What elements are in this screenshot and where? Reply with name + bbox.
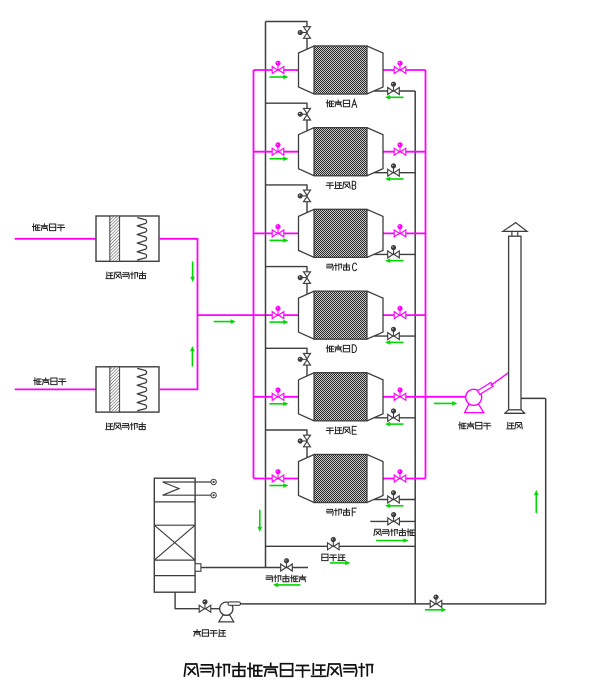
valve black top of adsorber C [298, 190, 311, 202]
wire outlet branch of adsorber A [383, 69, 426, 71]
wire magenta supply manifold (left) [253, 70, 255, 479]
flow arrow into adsorber F [270, 483, 289, 488]
valve magenta inlet of adsorber F [272, 469, 284, 482]
catalytic combustion unit [154, 478, 211, 592]
valve black top of adsorber D [298, 272, 311, 284]
wire black desorption manifold (left) [265, 22, 267, 568]
valve bottom return [430, 595, 442, 608]
flow arrow down on left desorption manifold [258, 510, 263, 532]
wire feed riser joining both filters [197, 239, 199, 390]
wire bottom desorption branch of adsorber F [374, 499, 415, 501]
wire catalytic unit bottom outlet [175, 592, 220, 609]
label adsorption box F [326, 508, 356, 516]
valve black top of adsorber A [298, 27, 311, 39]
label adsorption box D [326, 345, 356, 353]
wire inlet branch to adsorber C [254, 232, 299, 234]
wire top desorption branch of adsorber B [266, 103, 308, 131]
adsorption box D [299, 291, 384, 339]
wire inlet 2 to dry filter 2 [15, 388, 96, 390]
wire catalytic cooling line [201, 567, 308, 569]
wire dry filter 2 outlet [159, 388, 198, 390]
flow arrow to main exhaust fan [434, 401, 458, 406]
valve catalytic cooling (cuihua bulengfa) [281, 558, 293, 571]
wire inlet 1 to dry filter 1 [15, 238, 96, 240]
dry filter 2 [96, 367, 159, 412]
flow arrow desorption into adsorber D [385, 340, 404, 345]
heater terminal 1 [211, 479, 216, 484]
wire outlet branch of adsorber B [383, 151, 426, 153]
flow arrow into adsorber C [270, 238, 289, 243]
valve black bottom of adsorber B [388, 163, 400, 176]
adsorption box A [299, 46, 384, 94]
valve black bottom of adsorber D [388, 327, 400, 340]
label desorption fan [194, 630, 226, 637]
label chimney [507, 422, 522, 429]
flow arrow switching line [330, 561, 351, 566]
flow arrow up from filter 2 [190, 346, 195, 367]
flow arrow into adsorber A [270, 75, 289, 80]
valve magenta outlet of adsorber F [394, 469, 406, 482]
valve magenta inlet of adsorber C [272, 224, 284, 237]
wire inlet branch to adsorber E [254, 396, 299, 398]
label switching valve [322, 554, 345, 561]
wire bottom desorption branch of adsorber A [374, 90, 415, 92]
dry filter 1 [96, 216, 159, 261]
valve black bottom of adsorber C [388, 245, 400, 258]
valve magenta inlet of adsorber A [272, 61, 284, 74]
wire bottom desorption branch of adsorber B [374, 172, 415, 174]
valve black bottom of adsorber A [388, 82, 400, 95]
wire inlet branch to adsorber F [254, 478, 299, 480]
wire dry filter 1 outlet [159, 238, 198, 240]
wire inlet branch to adsorber A [254, 69, 299, 71]
adsorption box B [299, 128, 384, 176]
wire outlet branch of adsorber C [383, 232, 426, 234]
wire black desorption manifold (right) [414, 91, 416, 604]
valve black top of adsorber F [298, 435, 311, 447]
valve magenta outlet of adsorber A [394, 61, 406, 74]
label main exhaust fan [459, 422, 491, 429]
wire magenta clean-air manifold (right) [425, 70, 427, 479]
wire top desorption branch of adsorber F [266, 430, 308, 458]
flow arrow desorption into adsorber F [385, 504, 404, 509]
valve black bottom of adsorber E [388, 408, 400, 421]
main exhaust fan [465, 373, 509, 413]
node waste-gas inlet 2 label [34, 378, 66, 385]
valve desorption cooling (tuofu bulengfa) [388, 512, 400, 525]
flow arrow desorption cooling [376, 538, 409, 543]
desorption fan [219, 602, 241, 622]
flow arrow desorption into adsorber E [385, 422, 404, 427]
wire bottom return line [241, 603, 546, 605]
valve magenta outlet of adsorber D [394, 306, 406, 319]
label adsorption box B [326, 181, 355, 189]
label adsorption box A [326, 100, 356, 108]
heater terminal 2 [211, 493, 216, 498]
valve black top of adsorber E [298, 354, 311, 366]
valve magenta outlet of adsorber B [394, 142, 406, 155]
wire top desorption branch of adsorber D [266, 267, 308, 295]
adsorption box F [299, 455, 384, 503]
flow arrow desorption into adsorber B [385, 177, 404, 182]
wire top desorption branch of adsorber E [266, 348, 308, 376]
valve magenta outlet of adsorber E [394, 387, 406, 400]
wire desorption cooling line [370, 520, 415, 522]
valve desorption fan inlet [199, 599, 211, 612]
wire bottom desorption branch of adsorber D [374, 335, 415, 337]
adsorption box E [299, 373, 384, 421]
adsorption box C [299, 209, 384, 257]
chimney [503, 223, 527, 414]
wire bottom desorption branch of adsorber C [374, 253, 415, 255]
wire top desorption branch of adsorber A [266, 22, 308, 50]
label adsorption box E [326, 426, 356, 434]
wire outlet branch of adsorber D [383, 314, 426, 316]
valve black top of adsorber B [298, 108, 311, 120]
flow arrow desorption into adsorber C [385, 258, 404, 263]
label dry filter 1 [106, 272, 146, 279]
valve switching (qiehuanfa) [328, 537, 340, 550]
label dry filter 2 [106, 423, 146, 430]
flow arrow into adsorber D [270, 320, 289, 325]
label adsorption box C [326, 263, 356, 271]
wire recirculation into chimney [521, 398, 546, 604]
wire outlet branch of adsorber E [383, 396, 466, 398]
wire main feed header to adsorber row D [198, 314, 299, 316]
flow arrow bottom return [425, 608, 447, 613]
valve black bottom of adsorber F [388, 490, 400, 503]
title: paint booth waste gas treatment process flow diagram [184, 663, 372, 677]
flow arrow on main feed header [214, 319, 236, 324]
flow arrow up to chimney [534, 490, 539, 513]
node waste-gas inlet 1 label [33, 224, 65, 231]
label catalytic cooling valve [266, 575, 306, 582]
wire outlet branch of adsorber F [383, 478, 426, 480]
flow arrow into adsorber E [270, 402, 289, 407]
flow arrow down from filter 1 [190, 262, 195, 283]
wire inlet branch to adsorber B [254, 151, 299, 153]
flow arrow into adsorber B [270, 156, 289, 161]
wire bottom desorption branch of adsorber E [374, 417, 415, 419]
label desorption cooling valve [374, 529, 414, 536]
valve magenta inlet of adsorber B [272, 142, 284, 155]
wire top desorption branch of adsorber C [266, 185, 308, 213]
flow arrow desorption into adsorber A [385, 95, 404, 100]
valve magenta inlet of adsorber E [272, 387, 284, 400]
flow arrow catalytic cooling [273, 583, 301, 588]
valve magenta inlet of adsorber D [272, 306, 284, 319]
wire switching line [266, 545, 416, 547]
valve magenta outlet of adsorber C [394, 224, 406, 237]
